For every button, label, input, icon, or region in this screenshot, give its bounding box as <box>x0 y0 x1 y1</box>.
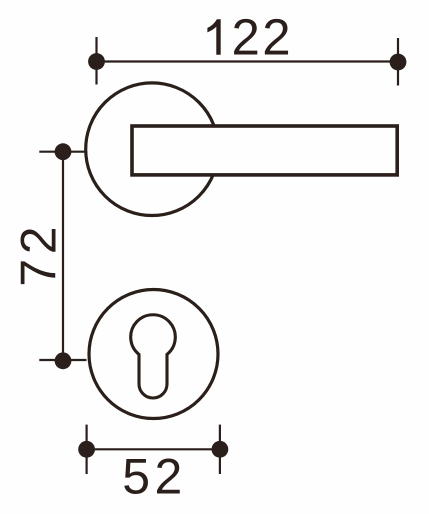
dimension 122 left dot <box>88 53 105 70</box>
dimension 72 bottom tick <box>39 359 86 361</box>
dimension 72 top tick <box>39 151 85 153</box>
lever handle bar <box>132 126 397 175</box>
dimension 122 label digit 1 (custom glyph) <box>207 19 220 55</box>
dimension 52 line <box>87 448 220 450</box>
dimension 52 left dot <box>78 441 95 458</box>
escutcheon circle (bottom) <box>89 290 218 419</box>
dimension 122 right tick <box>397 38 399 86</box>
dimension 52 left tick <box>85 425 87 474</box>
svg-text:52: 52 <box>122 449 187 505</box>
dimension 52 right dot <box>212 441 229 458</box>
dimension 72 top dot <box>55 143 72 160</box>
dimension 72 line <box>62 152 64 361</box>
dimension 52 right tick <box>219 425 221 474</box>
dimension 122 left tick <box>95 37 97 85</box>
svg-text:22: 22 <box>232 9 294 66</box>
svg-text:72: 72 <box>10 222 66 287</box>
dimension 122 right dot <box>390 54 407 71</box>
dimension 72 bottom dot <box>55 352 72 369</box>
dimension 122 line <box>97 60 399 62</box>
keyhole euro cylinder profile <box>131 315 176 398</box>
rosette circle (top) <box>86 83 219 216</box>
